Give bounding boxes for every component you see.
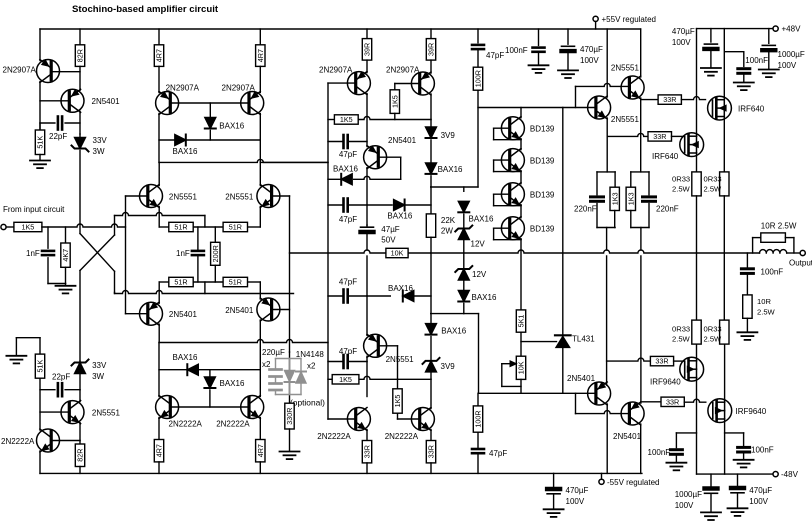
QB2 label 2N2222A (216, 420, 250, 429)
svg-text:4R7: 4R7 (256, 444, 265, 457)
svg-text:33R: 33R (653, 132, 666, 141)
BAX16 clamp2 label (472, 293, 497, 302)
transistor Q16 2N2222A (411, 408, 434, 431)
From input circuit label (3, 205, 65, 214)
wire mirror2 base tie (170, 406, 249, 408)
wire lower cross line (115, 282, 294, 294)
wire Q9 collector down (366, 168, 368, 226)
svg-text:1nF: 1nF (176, 249, 190, 258)
resistor 33R vas left (362, 430, 371, 474)
wire col431 below bus (430, 253, 432, 324)
wire bd feed row (478, 107, 596, 109)
ground 100nF ps1 (529, 65, 549, 73)
wire VAS row5 (328, 376, 431, 379)
3V9 top label (441, 131, 456, 140)
+48V top rail wire (697, 28, 774, 30)
capacitor 47uF 50V (361, 225, 374, 232)
Q7 label 2N2907A (319, 66, 353, 75)
svg-text:(optional): (optional) (290, 398, 325, 408)
diode BAX16 vas3 (403, 291, 414, 302)
47pF row4 label (339, 347, 357, 356)
diode BAX16 vas1 (341, 174, 352, 185)
diode BAX16 mirror2 horizontal (187, 364, 198, 375)
capacitor 22pF bottom (40, 383, 80, 396)
zener 12V top (455, 226, 472, 254)
svg-text:2N2907A: 2N2907A (3, 66, 37, 75)
svg-text:47µF: 47µF (381, 225, 400, 234)
svg-text:BAX16: BAX16 (220, 379, 245, 388)
wire zener2 to 22pF row (79, 373, 81, 390)
svg-text:BAX16: BAX16 (173, 147, 198, 156)
resistor 10K (386, 248, 408, 257)
svg-text:2W: 2W (441, 227, 453, 236)
capacitor 100nF ps1 (533, 29, 545, 65)
47pF row2 label (339, 215, 357, 224)
wire Q12 base elbow (378, 346, 397, 380)
capacitor 47pF row1 (328, 135, 367, 148)
svg-text:470µF: 470µF (566, 486, 589, 495)
svg-text:BAX16: BAX16 (469, 215, 494, 224)
svg-text:1K5: 1K5 (393, 395, 402, 408)
resistor 51R bottom-right (223, 277, 247, 286)
wire Q5401L collector down (158, 324, 160, 342)
mosfet IRF9640 #1 (680, 357, 704, 381)
resistor 5K1 (516, 310, 525, 332)
svg-text:2N2222A: 2N2222A (385, 432, 419, 441)
wire Q1 base node (51, 66, 80, 90)
wire Q16 base (398, 418, 420, 420)
47pF bias top label (486, 51, 504, 60)
Q14 label 2N5551 (611, 115, 640, 124)
Q2N5551 right label (225, 193, 254, 202)
svg-text:470µF: 470µF (749, 486, 772, 495)
ground zobel (737, 318, 757, 340)
capacitor 47pF row4 (328, 355, 367, 368)
1nF input label (26, 249, 40, 258)
pot wiper (502, 361, 521, 386)
wire RC right below bus (640, 256, 642, 403)
-48V label (781, 470, 799, 479)
diode BAX16 clamp1 (458, 187, 469, 228)
svg-text:50V: 50V (381, 236, 396, 245)
svg-text:BAX16: BAX16 (472, 293, 497, 302)
svg-text:3W: 3W (93, 147, 105, 156)
Q8 label 2N2907A (386, 66, 420, 75)
svg-text:4R7: 4R7 (155, 444, 164, 457)
wire TL431 ref line (521, 341, 557, 343)
wire Q6 collector down (259, 114, 261, 141)
wire Q16 collector up (430, 379, 432, 408)
10R zobel label (757, 297, 776, 317)
diode BAX16 mirror2 vertical (204, 370, 215, 407)
svg-text:1K5: 1K5 (390, 95, 399, 108)
resistor 0R33 #2 (704, 172, 730, 196)
wire 100R to row (477, 90, 479, 187)
input terminal (1, 224, 14, 229)
svg-text:2N5551: 2N5551 (169, 193, 198, 202)
3V9 bottom label (441, 362, 456, 371)
svg-text:100R: 100R (474, 410, 483, 427)
svg-text:2N5401: 2N5401 (613, 432, 642, 441)
capacitor 470uF ps2 (704, 29, 717, 68)
wire 4R7 to Q5 (158, 66, 160, 92)
-48V bottom rail wire (697, 473, 773, 475)
Q19 label 2N5401 (613, 432, 642, 441)
svg-text:2N2907A: 2N2907A (222, 84, 256, 93)
wire BD139 #3 base loop (494, 194, 521, 206)
wire Q5401R emitter up (259, 282, 261, 299)
svg-text:22pF: 22pF (49, 132, 67, 141)
wire Q5551L collector up (158, 162, 160, 185)
svg-text:1K5: 1K5 (339, 375, 352, 384)
1000uF ps2 label (675, 490, 702, 510)
ground 470uF ps1 (558, 70, 578, 78)
svg-text:1nF: 1nF (26, 249, 40, 258)
wire Q14 collector up (606, 29, 608, 97)
wire base col to optional (289, 352, 291, 403)
svg-text:51R: 51R (229, 278, 242, 287)
resistor 39R right (426, 29, 435, 60)
resistor 4R7 bottom-left (154, 418, 163, 474)
wire VAS row4 right (367, 295, 431, 297)
wire Q5551L emitter down (158, 207, 160, 228)
mosfet IRF640 #1 (708, 96, 732, 120)
wire Q2 collector down (79, 111, 81, 134)
wire left column to rail (39, 451, 41, 473)
resistor 33R vas right (426, 430, 435, 474)
svg-text:2.5W: 2.5W (757, 308, 776, 317)
capacitor 470uF ps3 (547, 473, 560, 509)
wire mirror2 diode row (159, 369, 260, 371)
wire VAS mirror feed (260, 161, 328, 163)
svg-text:100nF: 100nF (751, 446, 774, 455)
main bus wire left (290, 250, 386, 253)
svg-text:12V: 12V (472, 270, 487, 279)
wire Q8 base elbow (395, 84, 420, 90)
-55V bottom rail wire (40, 472, 642, 474)
main bus wire mid (408, 252, 431, 254)
wire IRF640#2 source (696, 153, 698, 172)
wire base column right pair (289, 196, 291, 352)
+55V regulated terminal (593, 16, 598, 29)
+55V regulated label (602, 15, 657, 24)
svg-text:47pF: 47pF (339, 215, 357, 224)
Q9 label 2N5401 (388, 136, 417, 145)
svg-text:51R: 51R (174, 278, 187, 287)
wire BD139 #1 base loop (494, 128, 521, 140)
resistor 51R top-right (223, 222, 247, 231)
ground 470uF ps3 (544, 509, 564, 517)
svg-text:10K: 10K (391, 249, 404, 258)
ground 1000uF ps1 (759, 70, 779, 78)
wire base column left pair (125, 196, 127, 314)
diode BAX16 mirror vertical (205, 103, 216, 140)
svg-text:100nF: 100nF (505, 46, 528, 55)
svg-text:5K1: 5K1 (517, 315, 526, 328)
1N4148 x2 label (296, 350, 325, 371)
ground input (56, 284, 76, 294)
transistor Q13 2N5551 driver (621, 76, 644, 99)
resistor 100R bottom (473, 393, 482, 432)
svg-text:-48V: -48V (781, 470, 799, 479)
resistor 22K 2W (426, 214, 435, 237)
wire Q19 emitter up (640, 402, 642, 404)
Q2N5551 left label (169, 193, 198, 202)
wire mirror2 output row (159, 340, 328, 343)
wire VAS row3 right (367, 204, 431, 206)
resistor 82R bottom (75, 441, 84, 474)
+55V top rail wire (40, 28, 641, 30)
wire Q7 base (328, 82, 356, 84)
capacitor 1000uF ps1 (762, 29, 775, 70)
Q1 label 2N2907A (3, 66, 37, 75)
wire Q5401L emitter up (158, 282, 160, 303)
wire mirror diode row (159, 139, 260, 141)
svg-text:2N5401: 2N5401 (567, 374, 596, 383)
capacitor 470uF ps4 (731, 474, 744, 508)
capacitor 1nF input (42, 227, 66, 284)
svg-text:2N5551: 2N5551 (386, 355, 415, 364)
transistor Q8 2N2907A (411, 72, 434, 95)
wire 22K to bus (430, 237, 432, 253)
svg-text:1K5: 1K5 (340, 115, 353, 124)
wire BD spine bottom (520, 239, 522, 310)
capacitor 47pF bias top (472, 29, 484, 67)
svg-text:2N5551: 2N5551 (92, 409, 121, 418)
svg-text:2N2222A: 2N2222A (216, 420, 250, 429)
Q3 label 2N5551 (92, 409, 121, 418)
wire pot bottom (520, 379, 522, 393)
ground 100nF ps2 (734, 83, 754, 91)
ground 470uF ps2 (701, 68, 721, 76)
svg-text:3V9: 3V9 (441, 131, 456, 140)
wire Q2 base (40, 100, 69, 102)
wire IRF640#1 source (723, 117, 725, 172)
svg-text:100nF: 100nF (745, 56, 768, 65)
inductor output (760, 250, 787, 253)
BAX16 vas2 label (387, 212, 412, 221)
svg-text:0R33: 0R33 (672, 325, 690, 334)
wire IRF9640#1 source up (696, 344, 698, 361)
-48V terminal (773, 472, 778, 477)
svg-text:10R 2.5W: 10R 2.5W (761, 222, 797, 231)
svg-text:BAX16: BAX16 (387, 212, 412, 221)
ground 100nF out1 (666, 463, 686, 471)
svg-text:1000µF: 1000µF (778, 50, 805, 59)
wire Q5401R base (272, 309, 290, 311)
Q5 label 2N2907A (166, 84, 200, 93)
wire Q5551R base (272, 195, 290, 197)
Q2N5401 right label (225, 306, 254, 315)
resistor 33R gate2 box (648, 132, 685, 141)
wire Q3 collector down (79, 423, 81, 441)
zener 33V 3W top (72, 134, 89, 152)
wire 4R7 to Q6 (259, 66, 261, 92)
svg-text:2N5401: 2N5401 (225, 306, 254, 315)
svg-text:2N2222A: 2N2222A (1, 437, 35, 446)
svg-text:51R: 51R (174, 223, 187, 232)
wire BD spine seg 1 (520, 139, 522, 150)
wire Q12 collector down (366, 356, 368, 361)
220nF left label (574, 205, 597, 214)
wire input line (42, 224, 126, 227)
capacitor 220nF left (591, 197, 604, 201)
zener 3V9 top (426, 120, 437, 163)
BD139 #3 label (530, 191, 555, 200)
wire Q19 collector down (640, 424, 642, 473)
wire Q5551L base (126, 195, 148, 197)
transistor Q9 2N5401 (364, 146, 387, 169)
+48V terminal (773, 26, 778, 31)
capacitor 1000uF ps2 (705, 474, 718, 512)
svg-text:220nF: 220nF (656, 205, 679, 214)
wire RC left below bus (606, 256, 608, 385)
svg-text:2N5401: 2N5401 (169, 310, 198, 319)
wire spine through bus (366, 256, 368, 296)
svg-text:0R33: 0R33 (672, 175, 690, 184)
resistor 1K5 input (14, 222, 42, 231)
ground 330R (280, 429, 300, 459)
svg-text:4R7: 4R7 (256, 49, 265, 62)
wire spine to Q12 (366, 296, 368, 335)
svg-text:2N2907A: 2N2907A (319, 66, 353, 75)
Q6 label 2N2907A (222, 84, 256, 93)
ground bottom-left (6, 338, 40, 364)
transistor Q4 2N2222A bottom (37, 429, 60, 452)
wire QB2 collector up (259, 370, 261, 397)
wire BD139 #4 base loop (494, 228, 521, 240)
wire RC bracket top right (631, 172, 649, 195)
resistor 33R gate2 (607, 133, 648, 136)
wire Q13 base (576, 83, 630, 107)
resistor 51K bottom (35, 338, 44, 379)
capacitor 1nF mid (192, 227, 204, 282)
resistor 4R7 top-left (154, 29, 163, 66)
resistor 0R33 #4 (704, 253, 730, 344)
wire zener to X elbow (79, 151, 81, 234)
resistor 33R gate3 (607, 356, 685, 365)
wire Q7 emitter up (366, 60, 368, 73)
47uF label (381, 225, 400, 245)
wire spine to Q15 (366, 362, 368, 397)
svg-text:2N5551: 2N5551 (611, 115, 640, 124)
BD139 #4 label (530, 225, 555, 234)
ground 1000uF ps2 (701, 512, 721, 520)
svg-text:IRF640: IRF640 (738, 105, 765, 114)
BD139 #1 label (530, 125, 555, 134)
svg-text:33R: 33R (363, 445, 372, 458)
diode BAX16 col1 (426, 163, 437, 187)
svg-text:33V: 33V (93, 136, 108, 145)
svg-text:BD139: BD139 (530, 157, 555, 166)
33V 3W label bottom (92, 361, 107, 381)
svg-text:220nF: 220nF (574, 205, 597, 214)
100nF ps2 label (745, 56, 768, 65)
transistor Q3 2N5551 bottom (61, 401, 84, 424)
resistor 200R (211, 227, 220, 282)
svg-text:100nF: 100nF (761, 268, 784, 277)
svg-text:2N2907A: 2N2907A (166, 84, 200, 93)
470uF ps1 label (580, 45, 603, 65)
svg-text:2.5W: 2.5W (704, 335, 723, 344)
resistor 51R top-left (169, 222, 193, 231)
output terminal (800, 250, 805, 255)
svg-text:33R: 33R (666, 397, 679, 406)
100nF zobel label (761, 268, 784, 277)
svg-text:82R: 82R (76, 49, 85, 62)
wire VAS row1 (328, 117, 431, 120)
capacitor 100nF zobel (741, 253, 753, 295)
svg-text:2N5401: 2N5401 (92, 97, 121, 106)
svg-text:82R: 82R (76, 449, 85, 462)
Q16 label 2N2222A (385, 432, 419, 441)
wire 51R row top (159, 226, 260, 228)
svg-text:10R: 10R (757, 297, 771, 306)
resistor 4R7 bottom-right (256, 418, 265, 474)
transistor Q2N5551 left (140, 185, 163, 208)
transistor Q7 2N2907A (347, 72, 370, 95)
470uF ps4 label (749, 486, 772, 506)
wire RC bracket bottom right (631, 204, 649, 251)
svg-text:470µF: 470µF (580, 45, 603, 54)
wire col431 rows (430, 187, 432, 214)
wire mirror base tie (170, 102, 249, 104)
QB1 label 2N2222A (169, 420, 203, 429)
svg-text:10K: 10K (517, 361, 526, 374)
svg-text:33R: 33R (663, 95, 676, 104)
resistor 51R bottom-left (169, 277, 193, 286)
svg-text:0R33: 0R33 (704, 325, 722, 334)
100nF ps1 label (505, 46, 528, 55)
wire Q13 emitter down (640, 98, 642, 172)
svg-text:1K3: 1K3 (610, 192, 619, 205)
resistor 0R33 #3 (672, 253, 701, 344)
svg-text:x2: x2 (307, 362, 316, 371)
diode BAX16 col2 (426, 324, 437, 360)
wire Q5 collector down (158, 114, 160, 163)
wire 0R33#2 to bus (723, 196, 725, 253)
svg-text:BAX16: BAX16 (173, 353, 198, 362)
svg-text:100V: 100V (566, 497, 585, 506)
svg-text:220µF: 220µF (262, 348, 285, 357)
Q15 label 2N2222A (317, 432, 351, 441)
main bus wire right (431, 250, 760, 253)
Q18 label 2N5401 (567, 374, 596, 383)
220nF right label (656, 205, 679, 214)
470uF ps3 label (566, 486, 589, 506)
capacitor 470uF ps1 (562, 29, 575, 70)
1000uF ps1 label (778, 50, 805, 70)
svg-text:1K3: 1K3 (626, 192, 635, 205)
BAX16 col1 label (438, 165, 463, 174)
svg-text:100nF: 100nF (648, 448, 671, 457)
svg-text:33V: 33V (92, 361, 107, 370)
resistor 1K3 right (626, 187, 635, 210)
svg-text:100V: 100V (672, 38, 691, 47)
wire IRF9640#1 drain down (696, 378, 698, 475)
IRF640 #1 label (738, 105, 765, 114)
wire Q3 base (40, 411, 69, 413)
transistor QB2 2N2222A (241, 396, 264, 419)
resistor 51K left (35, 123, 44, 155)
wire X diagonal A (80, 234, 115, 272)
svg-text:4K7: 4K7 (61, 249, 70, 262)
-55V regulated terminal (599, 473, 604, 484)
capacitor 100nF out1 (670, 433, 696, 462)
resistor 4K7 (61, 227, 70, 284)
transistor Q6 2N2907A (241, 92, 264, 115)
resistor 10R zobel (743, 295, 752, 318)
